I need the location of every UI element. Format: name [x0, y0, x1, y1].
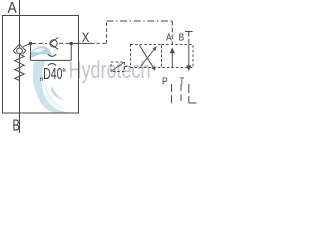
svg-text:A: A: [8, 0, 18, 17]
svg-text:B: B: [179, 31, 185, 43]
svg-text:Hydrotech: Hydrotech: [69, 57, 151, 84]
svg-text:„D40“: „D40“: [40, 66, 66, 83]
svg-text:B: B: [13, 118, 20, 133]
svg-text:T: T: [180, 76, 185, 88]
svg-text:X: X: [82, 30, 90, 45]
svg-text:P: P: [162, 76, 168, 88]
svg-text:A: A: [166, 31, 172, 43]
